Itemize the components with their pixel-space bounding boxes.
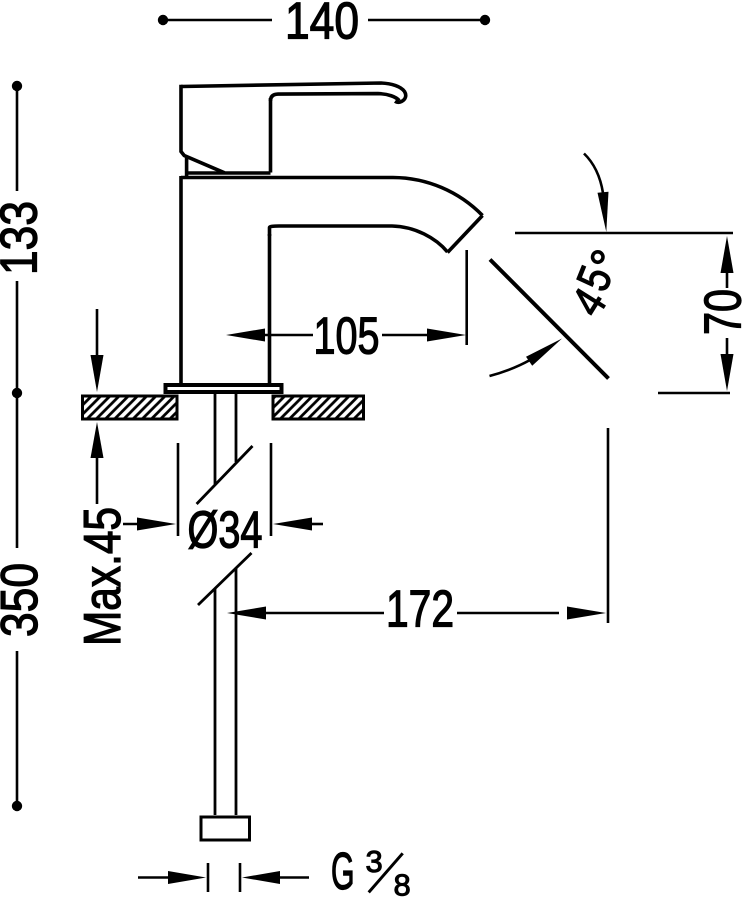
spout inner curve [270, 226, 448, 252]
dim O34 left arrowhead [137, 518, 176, 531]
dim Max.45 down arrow [96, 309, 99, 357]
dim 70 up arrowhead [721, 236, 734, 273]
dim O34 right arrowhead [273, 518, 312, 531]
svg-text:105: 105 [314, 308, 380, 366]
dim O34 extension ticks [123, 443, 323, 536]
dim 140 end dots [158, 15, 168, 25]
mounting deck left (hatched) [83, 396, 178, 419]
pipe break slash 2 [198, 553, 252, 605]
faucet lever outer edge [181, 83, 483, 384]
svg-text:350: 350 [0, 563, 49, 637]
pipe break slash 1 [197, 446, 253, 504]
svg-text:8: 8 [394, 868, 411, 900]
dim 105 right arrowhead [427, 329, 466, 342]
faucet lever left edge and bottom diagonal [181, 85, 225, 173]
base flange [166, 385, 282, 392]
body left edge [179, 176, 183, 384]
dim 70 bottom reference line [658, 392, 730, 395]
dim G3/8 left arrow [138, 876, 170, 879]
dim 350 line [16, 393, 19, 801]
dim 172 line [266, 428, 608, 623]
mounting deck right (hatched) [273, 396, 364, 419]
svg-text:133: 133 [0, 201, 49, 275]
dim 105 line [265, 250, 467, 345]
cartridge collar top line [185, 171, 271, 175]
svg-text:Ø34: Ø34 [188, 502, 263, 560]
dim O34 arrow lines [123, 523, 140, 526]
faucet lever neck [269, 98, 273, 173]
svg-text:3: 3 [366, 844, 383, 879]
dim 70 top reference line [515, 232, 733, 235]
svg-text:70: 70 [695, 289, 745, 335]
dim 133 line [16, 86, 19, 393]
cartridge collar left vertical [185, 157, 189, 178]
svg-text:172: 172 [386, 581, 454, 639]
svg-text:Max.45: Max.45 [74, 507, 132, 646]
45 deg bottom curved arrow [490, 360, 531, 376]
dim 172 left arrowhead [227, 607, 266, 620]
dim 105 extension tick [465, 250, 468, 345]
dim Max.45 up arrow [96, 456, 99, 504]
dim 70 down arrowhead [721, 354, 734, 391]
dim G3/8 ticks [208, 863, 240, 892]
dim G3/8 right arrow [242, 871, 280, 884]
body right edge [268, 234, 272, 384]
faucet lever inner edge [271, 94, 400, 101]
G3/8 connector block [201, 817, 250, 840]
svg-text:G: G [331, 843, 355, 900]
supply pipe upper segments [197, 394, 253, 815]
dim 172 extension line [607, 428, 610, 623]
dim 133 end dots [12, 81, 22, 91]
45 deg water flow line [490, 260, 609, 379]
spout outlet face (45 deg) [448, 216, 483, 253]
45 deg text [561, 245, 635, 325]
45 deg top curved arrow [584, 154, 603, 194]
dim 350 end dot [12, 801, 22, 811]
supply pipe lower segments [214, 589, 217, 815]
dim 105 left arrowhead [226, 329, 265, 342]
dim 70 vertical line [726, 271, 729, 357]
dim 172 right arrowhead [567, 607, 606, 620]
body top and spout outer curve [181, 178, 483, 216]
dim 140 line [163, 19, 485, 22]
svg-text:140: 140 [285, 0, 359, 51]
